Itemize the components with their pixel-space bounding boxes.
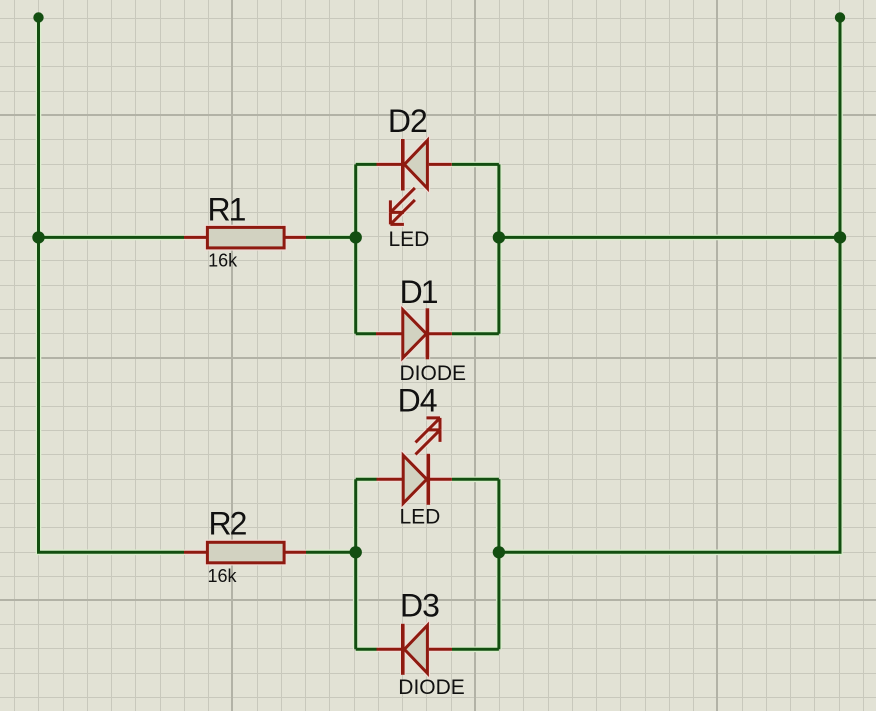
svg-text:LED: LED: [400, 506, 441, 529]
svg-text:D4: D4: [398, 383, 437, 419]
wire branch2 top-right stub: [452, 478, 499, 481]
diode D3 (points left): [377, 624, 453, 675]
wire branch2 top-left stub: [356, 478, 377, 481]
svg-text:DIODE: DIODE: [398, 676, 465, 699]
wire branch2 right vertical: [497, 479, 500, 649]
wire row1 mid segment: [306, 236, 356, 239]
wire row1 left segment: [39, 236, 185, 239]
node junction branch1 right: [493, 231, 505, 243]
svg-text:16k: 16k: [208, 251, 238, 271]
wire branch1 top-right stub: [452, 163, 499, 166]
svg-text:R2: R2: [209, 506, 247, 542]
LED D2 (points left): [377, 139, 452, 224]
node junction right row1: [834, 231, 846, 243]
component halo underlay: [184, 139, 452, 675]
node junction branch2 left: [350, 546, 362, 558]
wire branch2 left vertical: [354, 479, 357, 649]
svg-text:D3: D3: [400, 587, 439, 623]
svg-text:D2: D2: [388, 103, 427, 139]
svg-text:16k: 16k: [208, 566, 238, 586]
svg-text:D1: D1: [400, 274, 438, 310]
wire branch2 bottom-right stub: [452, 648, 499, 651]
diode D1 (points right): [376, 308, 452, 359]
wire branch1 right vertical: [497, 164, 500, 333]
wire left vertical with row2 run: [39, 18, 185, 553]
resistor R1: [184, 227, 306, 248]
node A junction left row1: [32, 231, 44, 243]
resistor R2: [184, 542, 306, 563]
svg-text:R1: R1: [208, 191, 246, 227]
node junction branch1 left: [350, 231, 362, 243]
svg-text:LED: LED: [389, 228, 430, 251]
wire branch1 left vertical: [354, 164, 357, 333]
node junction branch2 right: [493, 546, 505, 558]
wire branch1 bottom-left stub: [356, 332, 377, 335]
wire row1 right segment: [499, 236, 840, 239]
wire right vertical with row2 run: [499, 18, 840, 553]
node dot top-left: [33, 12, 43, 22]
LED D4 (points right): [377, 418, 452, 505]
wire branch1 bottom-right stub: [452, 332, 499, 335]
wire branch2 bottom-left stub: [356, 648, 377, 651]
wire branch1 top-left stub: [356, 163, 377, 166]
wire row2 mid segment: [306, 551, 356, 554]
node dot top-right: [835, 12, 845, 22]
